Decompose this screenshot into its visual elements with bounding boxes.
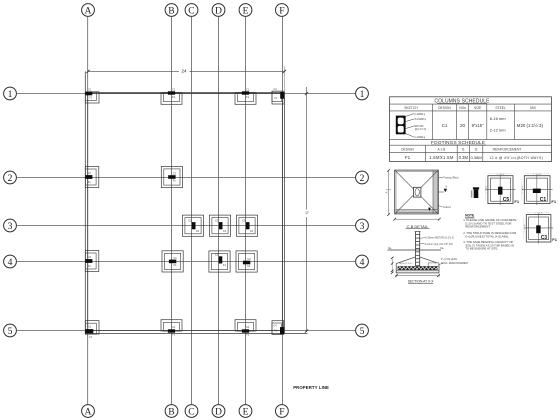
svg-text:5: 5 [360, 326, 365, 337]
svg-text:GL: GL [440, 246, 444, 250]
svg-text:1 . 5 0 M: 1 . 5 0 M [524, 224, 526, 232]
svg-text:C1: C1 [540, 197, 547, 203]
svg-text:A x B: A x B [438, 147, 446, 151]
svg-text:1 . 5 0 M: 1 . 5 0 M [497, 174, 505, 176]
svg-text:Footing (Plan): Footing (Plan) [443, 177, 458, 180]
svg-text:2-12 mm: 2-12 mm [490, 128, 506, 133]
svg-text:3: 3 [8, 221, 13, 232]
svg-text:3: 3 [360, 221, 365, 232]
svg-text:MIX: MIX [530, 106, 537, 110]
svg-text:FOOTINGS SCHEDULE: FOOTINGS SCHEDULE [431, 140, 485, 146]
svg-text:6-16 mm: 6-16 mm [490, 116, 506, 121]
svg-text:F1: F1 [552, 237, 557, 242]
svg-text:SIZE: SIZE [474, 106, 482, 110]
svg-text:3" (1:3:6) LEAN: 3" (1:3:6) LEAN [441, 258, 457, 261]
svg-text:SKETCH: SKETCH [404, 106, 418, 110]
svg-text:2-12mm (top.) Tor # 8" C/C: 2-12mm (top.) Tor # 8" C/C [425, 243, 453, 246]
svg-text:C5: C5 [215, 218, 219, 222]
svg-text:9"x15": 9"x15" [472, 123, 485, 128]
svg-text:F1: F1 [514, 199, 519, 204]
svg-text:A: A [85, 406, 92, 417]
svg-text:C.B DETAIL: C.B DETAIL [407, 224, 429, 229]
svg-text:G+1(PLUS/ES) TOTAL (4 SLABS).: G+1(PLUS/ES) TOTAL (4 SLABS). [465, 234, 509, 238]
svg-text:COLUMNS SCHEDULE: COLUMNS SCHEDULE [434, 99, 490, 105]
svg-text:1: 1 [8, 89, 13, 100]
svg-text:12 # @ 4½"c/c(BOTH WAYS): 12 # @ 4½"c/c(BOTH WAYS) [489, 156, 543, 160]
svg-text:C5: C5 [188, 218, 192, 222]
svg-text:2: 2 [8, 173, 13, 184]
svg-text:1: 1 [360, 89, 365, 100]
svg-text:M20 (1:1½:3): M20 (1:1½:3) [517, 123, 544, 128]
svg-text:GL: GL [388, 246, 392, 250]
svg-text:NOs: NOs [459, 106, 466, 110]
svg-text:6-16MM φ: 6-16MM φ [415, 118, 426, 121]
svg-text:M150 (1:2:4) -: M150 (1:2:4) - [399, 263, 413, 265]
svg-text:C2: C2 [173, 171, 177, 175]
svg-text:C5: C5 [242, 218, 246, 222]
svg-text:2-12MM φ: 2-12MM φ [414, 136, 425, 139]
svg-text:C: C [188, 5, 194, 16]
svg-text:E: E [243, 406, 249, 417]
svg-text:C3: C3 [88, 255, 92, 259]
svg-text:C1: C1 [442, 123, 448, 128]
svg-text:F: F [279, 5, 284, 16]
svg-text:X: X [445, 185, 447, 189]
svg-text:B: B [168, 406, 174, 417]
svg-text:C3: C3 [247, 257, 251, 261]
svg-text:B: B [168, 5, 174, 16]
svg-text:Column: Column [443, 206, 452, 209]
svg-text:CONC. REINFORCEMENT: CONC. REINFORCEMENT [441, 263, 469, 265]
svg-text:2-12MM φ: 2-12MM φ [414, 113, 425, 116]
svg-text:DESIGN: DESIGN [438, 106, 451, 110]
svg-text:1 . 5 0 M: 1 . 5 0 M [535, 213, 543, 215]
svg-text:D: D [215, 406, 222, 417]
svg-text:C1: C1 [246, 325, 250, 329]
svg-text:t2: t2 [475, 147, 478, 151]
svg-text:DESIGN: DESIGN [401, 147, 414, 151]
svg-text:A: A [385, 191, 389, 193]
svg-text:0.3M: 0.3M [459, 155, 469, 160]
svg-text:@(1:1½:3): @(1:1½:3) [415, 127, 427, 131]
svg-text:C1: C1 [246, 88, 250, 92]
svg-text:1 . 5 0 M: 1 . 5 0 M [486, 185, 488, 193]
svg-text:1 . 5 0 M: 1 . 5 0 M [522, 185, 524, 193]
svg-text:C1: C1 [172, 88, 176, 92]
svg-text:TO BE ENSURE AT SITE.: TO BE ENSURE AT SITE. [465, 247, 498, 251]
svg-text:C3: C3 [215, 253, 219, 257]
svg-text:F1: F1 [405, 155, 411, 160]
svg-text:PROPERTY LINE: PROPERTY LINE [293, 385, 329, 390]
svg-text:C3: C3 [541, 235, 548, 241]
svg-text:A: A [85, 5, 92, 16]
svg-text:D: D [215, 5, 222, 16]
svg-text:24: 24 [182, 69, 187, 74]
svg-text:C5: C5 [503, 197, 510, 203]
svg-text:0.38M: 0.38M [471, 155, 482, 160]
svg-text:REINFORCEMENT: REINFORCEMENT [493, 147, 522, 151]
svg-text:E: E [243, 5, 249, 16]
svg-text:1 . 5 0 M: 1 . 5 0 M [533, 174, 541, 176]
svg-text:C: C [188, 406, 194, 417]
svg-text:1.5MX1.5M: 1.5MX1.5M [429, 155, 454, 160]
svg-text:17: 17 [305, 211, 309, 215]
svg-text:F: F [279, 406, 284, 417]
svg-text:SECTION AT X-X: SECTION AT X-X [408, 279, 435, 283]
svg-text:C2: C2 [88, 171, 92, 175]
svg-text:20: 20 [460, 123, 466, 128]
svg-text:4: 4 [8, 257, 13, 268]
svg-text:t1: t1 [462, 147, 465, 151]
svg-text:5: 5 [8, 326, 13, 337]
svg-text:REINFORCEMENT.: REINFORCEMENT. [465, 225, 490, 229]
svg-text:4: 4 [360, 257, 365, 268]
svg-text:F1: F1 [551, 199, 556, 204]
svg-text:C1: C1 [172, 325, 176, 329]
svg-text:2: 2 [360, 173, 365, 184]
svg-text:STEEL: STEEL [495, 106, 506, 110]
svg-text:C1: C1 [173, 256, 177, 260]
